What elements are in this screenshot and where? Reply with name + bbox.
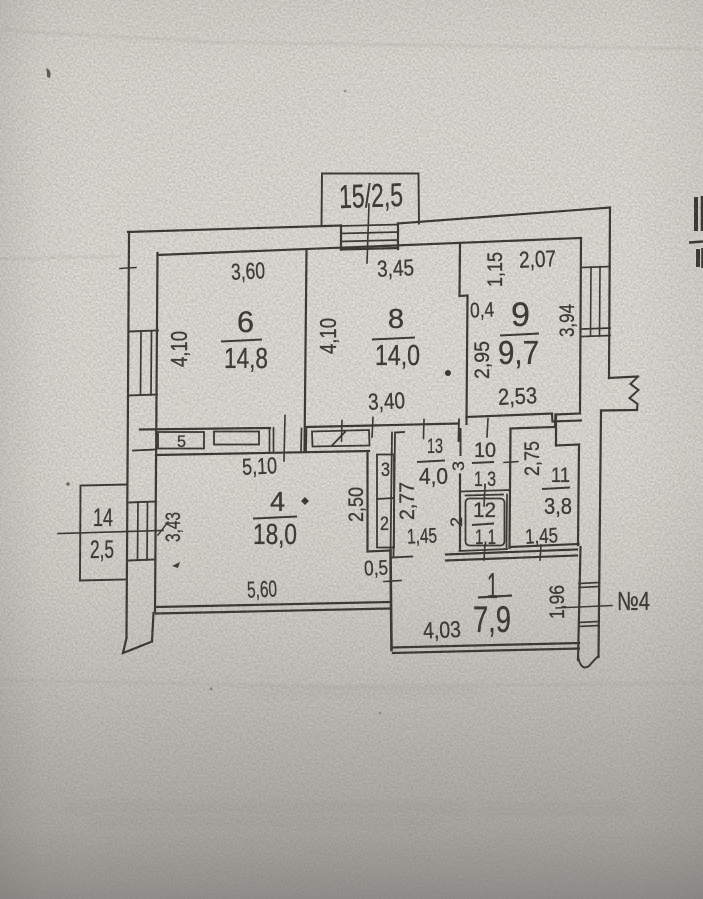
- ink specks: [46, 68, 381, 714]
- room4 left-wall top piece: [133, 450, 156, 451]
- corridor13 right wall lower: [459, 475, 461, 551]
- closet 3/2 divider: [377, 498, 394, 499]
- balcony 15 railing line 2: [341, 232, 398, 234]
- corridor13 top-left jog: [395, 431, 404, 434]
- room11 step up: [554, 415, 557, 428]
- dim tick T7 room10 bottom: [484, 486, 485, 507]
- niche left vertical: [555, 415, 557, 446]
- room1 top wall line a: [446, 550, 577, 555]
- wall between room8 and room9 upper: [458, 243, 461, 296]
- dim tick T2 closet7: [341, 421, 344, 442]
- room11 top wall: [511, 427, 556, 429]
- room12 bottom line: [460, 549, 508, 551]
- closet box (plain): [214, 432, 259, 445]
- room6 bottom wall: [140, 428, 270, 430]
- corridor13 right wall upper: [460, 429, 462, 455]
- window W1 room6 left bottom edge: [128, 395, 157, 396]
- wall: left outer bottom cut: [123, 638, 152, 653]
- window W3 room1 right top edge a: [579, 583, 600, 584]
- arrow speck in room4 left: [172, 562, 180, 568]
- closet box 5: [158, 432, 204, 449]
- wall 8/9 jog: [460, 294, 468, 297]
- window W3 top edge b: [579, 587, 600, 588]
- room1 fraction line: [478, 596, 512, 598]
- room1 bottom wall line b: [393, 649, 579, 654]
- dim tick T11 left wall: [120, 268, 136, 269]
- partial glyph bar b: [701, 196, 703, 231]
- window W3 bottom edge a: [579, 622, 600, 623]
- step 0,5 horizontal: [368, 551, 391, 552]
- dim tick T8 room1 top left: [484, 545, 485, 561]
- wall: right bottom break wave: [579, 656, 599, 667]
- room4 right wall: [366, 451, 368, 552]
- dim tick T5 room9 bottom: [487, 419, 488, 438]
- blob in room8: [445, 370, 451, 376]
- window W2 room9 right top edge: [583, 267, 611, 268]
- partial glyph block: [696, 249, 700, 267]
- wall: left inner lower end: [152, 613, 154, 642]
- room8 fraction line: [372, 338, 415, 340]
- band door pier b: [301, 429, 307, 453]
- window W2 mullion a: [590, 267, 593, 336]
- wall: right outer notch jagged edge: [630, 377, 639, 411]
- room12 fraction line: [472, 524, 494, 526]
- right edge partial glyphs: [689, 196, 703, 268]
- room1 right wall (inner, continues to break): [578, 547, 581, 660]
- wall: right outer notch top: [609, 377, 638, 379]
- balcony 15 railing bottom: [341, 248, 398, 250]
- dim tick below balcony 15: [367, 204, 369, 263]
- ink blobs: [172, 370, 451, 568]
- window W1 room6 left top edge: [129, 331, 158, 332]
- balcony 14 railing mullion b: [146, 502, 149, 560]
- room9 right wall inner: [580, 238, 581, 414]
- balcony 14 railing mullion a: [137, 502, 140, 560]
- paper creases: [0, 30, 703, 687]
- dim tick T3 band right: [372, 418, 373, 438]
- balcony 15 railing line 1: [341, 224, 398, 250]
- closet 3/2 column box: [377, 455, 394, 548]
- window W1 mullion b: [150, 331, 153, 395]
- dim tick corridor top: [423, 420, 426, 439]
- window W1 mullion a: [140, 331, 143, 395]
- window W3 bottom edge b: [579, 626, 600, 627]
- wall between room6 and room8: [305, 250, 307, 451]
- band bottom (room4 top wall): [156, 451, 369, 455]
- room6 fraction line: [221, 340, 262, 342]
- room8 bottom wall: [306, 424, 458, 428]
- partial glyph bar a: [694, 197, 698, 231]
- wall: inner top (rooms 6,8,9 ceiling line): [158, 238, 582, 255]
- room1 bottom wall line a: [393, 643, 580, 648]
- room4 bottom wall line a: [156, 602, 390, 607]
- room11 right wall: [578, 445, 579, 546]
- closet box 7 with diagonal: [312, 430, 370, 447]
- balcony 15 box: [322, 174, 420, 227]
- room10 fraction line: [472, 462, 494, 463]
- window W2 bottom edge b: [583, 336, 611, 337]
- balcony 14 railing top: [130, 502, 157, 503]
- wall: left inner: [155, 253, 158, 612]
- room4 fraction line: [253, 517, 297, 519]
- dim tick 0,5: [384, 581, 401, 582]
- dim tick T6 cross room11 wall: [504, 455, 518, 469]
- room12 outer right wall: [506, 495, 509, 550]
- balcony 15 railing top line: [341, 225, 398, 227]
- room10 bottom double line: [461, 490, 510, 496]
- window W2 bottom edge a: [583, 328, 611, 329]
- wall 8/9 lower (room9 left wall): [467, 296, 468, 425]
- wall: top outer left segment: [128, 226, 341, 233]
- balcony 14 box: [80, 485, 127, 581]
- dim tick T9 room1 top right: [540, 545, 541, 560]
- room1 left wall upper (pier): [391, 551, 392, 651]
- wall: right outer notch bottom: [601, 409, 637, 412]
- room11 bottom wall: [511, 544, 579, 547]
- room9 fraction line: [500, 334, 539, 336]
- dim tick T1 band: [284, 416, 285, 462]
- wall: left outer: [127, 232, 130, 638]
- corridor13 left wall (double): [391, 433, 396, 557]
- room9 bottom wall: [467, 414, 582, 422]
- balcony 15 railing line 3: [341, 240, 398, 242]
- dim tick T4 corridor top: [458, 420, 461, 442]
- room4 bottom wall line b: [156, 609, 390, 614]
- wall: right outer lower: [599, 411, 602, 658]
- room11 fraction line: [542, 488, 570, 490]
- balcony 14 tick slash: [158, 522, 168, 535]
- window W3 dimension line to N4: [556, 606, 612, 609]
- balcony 14 dimension line: [58, 531, 163, 534]
- niche top (room9 bottom right continues): [556, 414, 581, 415]
- bleed-through smudges: [65, 688, 630, 826]
- niche bottom: [556, 445, 579, 446]
- room12 inner box: [466, 499, 505, 546]
- window W2 mullion b: [599, 267, 602, 337]
- room1 top wall line b: [446, 556, 577, 561]
- diamond in room4: [301, 497, 309, 505]
- wall: top outer right segment: [398, 208, 610, 224]
- band door pier a: [270, 428, 274, 451]
- room10 right wall / room11 left wall: [510, 429, 511, 548]
- corridor13 fraction line: [417, 461, 445, 463]
- partial glyph underline: [689, 242, 703, 243]
- wall: right outer upper: [609, 208, 610, 379]
- corridor13 bottom jamb: [392, 557, 412, 558]
- balcony 14 railing bottom: [129, 560, 156, 561]
